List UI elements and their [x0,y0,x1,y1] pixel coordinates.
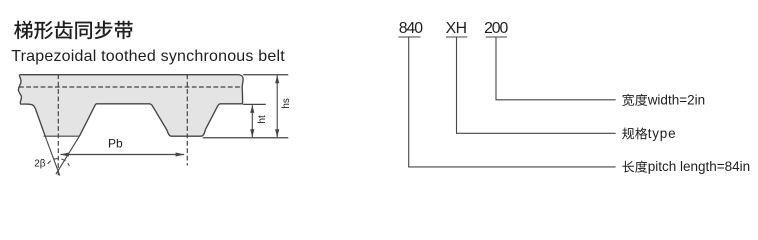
svg-text:pitch length=84in: pitch length=84in [648,159,750,174]
svg-text:Trapezoidal toothed synchronou: Trapezoidal toothed synchronous belt [11,48,285,65]
svg-text:width=2in: width=2in [647,92,705,107]
svg-text:type: type [648,126,677,141]
svg-text:200: 200 [484,20,508,37]
svg-text:XH: XH [446,20,467,37]
svg-text:hs: hs [281,98,292,108]
svg-text:2β: 2β [34,158,46,169]
svg-text:ht: ht [257,115,268,123]
svg-text:Pb: Pb [108,137,123,151]
svg-text:840: 840 [399,20,423,37]
